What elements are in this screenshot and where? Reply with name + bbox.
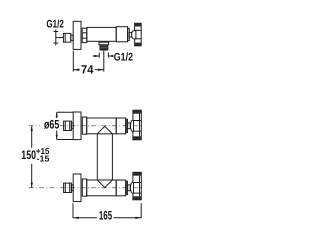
inlet union nut (side view) <box>63 33 70 42</box>
unit1 collar <box>82 117 86 134</box>
outlet G1/2 arrow right <box>109 55 112 57</box>
dim 150 tolerance -15 <box>37 153 50 163</box>
hex collar <box>82 28 87 42</box>
hex facet line lower <box>82 37 87 39</box>
unit2 handle bottom cap <box>133 196 141 200</box>
dim o65 text <box>44 118 59 132</box>
dim o65 vertical line bottom seg <box>56 131 58 140</box>
unit1 centerline (dash-dot) <box>29 125 40 127</box>
svg-text:165: 165 <box>99 208 112 222</box>
nut-to-flange stub <box>71 35 73 40</box>
outlet collar <box>99 42 109 45</box>
dim 165 line right segment <box>114 217 142 219</box>
handle bottom cap fill <box>135 43 142 46</box>
outlet extension tick left <box>98 53 100 58</box>
inlet tick bottom <box>54 42 59 44</box>
unit2 collar <box>82 179 86 196</box>
handle mid line lower <box>135 38 142 40</box>
nut chamfer line <box>64 33 66 42</box>
dim 165 line left segment <box>73 217 97 219</box>
unit2 handle bar <box>133 172 141 200</box>
handle mid line upper <box>135 29 142 31</box>
unit2 nut chamfer right <box>69 183 71 192</box>
dim o65 bottom extension <box>57 139 73 141</box>
dim 150 vertical line upper seg <box>31 126 33 148</box>
label G1/2 inlet text <box>46 18 63 30</box>
unit1 stub <box>71 123 73 129</box>
wall flange / escutcheon (side view) <box>73 21 81 49</box>
unit2 union nut <box>64 183 72 192</box>
unit1 handle hub <box>131 120 134 131</box>
unit1 handle bottom cap <box>133 136 141 140</box>
handle hub <box>132 31 136 39</box>
dim 150 tolerance +15 <box>36 146 50 156</box>
svg-text:ø65: ø65 <box>44 118 59 132</box>
unit1 body <box>87 118 117 134</box>
dim o65 arrow down <box>56 135 58 140</box>
unit1 handle bar <box>133 110 141 140</box>
svg-text:G1/2: G1/2 <box>114 51 133 63</box>
handle bar (side view) <box>135 23 142 46</box>
unit2 wall flange <box>73 174 81 202</box>
outlet centerline extension <box>103 51 105 72</box>
outlet extension tick right <box>107 53 109 58</box>
dim 150 text <box>21 148 36 162</box>
unit2 cartridge housing <box>116 180 125 196</box>
unit1 handle top cap <box>133 110 141 114</box>
thread line 2 <box>100 47 108 49</box>
hex facet line upper <box>82 32 87 34</box>
handle top cap fill <box>135 23 142 26</box>
dim 165 right extension <box>140 203 142 218</box>
unit1 union nut <box>64 121 72 130</box>
unit1 pipe intersection (lambda) <box>97 126 112 134</box>
unit2 end cap <box>126 181 128 195</box>
outlet G1/2 arrow left <box>93 55 99 57</box>
dim 165 text <box>99 208 112 222</box>
dim 150 arrow down <box>31 183 33 188</box>
dim 74 arrow left <box>73 69 79 71</box>
unit1 handle neck <box>128 123 131 129</box>
unit1 wall flange <box>73 112 81 140</box>
dim o65 top extension <box>57 111 73 113</box>
unit1 end cap <box>126 119 128 133</box>
dim 74 arrow right <box>98 69 104 71</box>
unit1 cartridge housing <box>116 118 125 134</box>
unit2 handle hub <box>131 182 134 193</box>
main body (side view) <box>87 27 116 41</box>
svg-text:74: 74 <box>81 62 94 76</box>
unit1 nut chamfer right <box>69 121 71 130</box>
end cap <box>128 28 130 40</box>
thread line 3 <box>100 48 108 50</box>
handle neck <box>129 33 132 38</box>
unit1 handle inner lines <box>133 120 141 122</box>
dim 165 arrow right <box>135 217 141 219</box>
connecting pipe left edge <box>96 134 98 180</box>
connecting pipe right edge <box>111 134 113 180</box>
unit2 body <box>87 180 117 196</box>
dim o65 vertical line top seg <box>56 112 58 118</box>
label G1/2 outlet text <box>114 51 133 63</box>
dim 150 arrow up <box>31 126 33 131</box>
unit2 stub <box>71 185 73 191</box>
unit2 handle inner lines <box>133 182 141 184</box>
svg-text:-15: -15 <box>37 153 50 163</box>
dim 74 text <box>81 62 94 76</box>
svg-text:G1/2: G1/2 <box>46 18 63 30</box>
inlet tick top <box>54 31 59 33</box>
cartridge housing (side view) <box>116 27 127 42</box>
thread line 1 <box>100 45 108 47</box>
unit2 centerline (dash-dot) <box>29 187 141 189</box>
unit2 handle neck <box>128 185 131 191</box>
inlet thread extension line vertical <box>55 30 57 46</box>
dim 74 line right segment <box>95 69 104 71</box>
svg-text:150: 150 <box>21 148 36 162</box>
inlet leader / centerline <box>56 37 64 39</box>
unit1 nut chamfer left <box>64 121 66 130</box>
dim 165 left extension <box>72 203 74 218</box>
unit2 nut chamfer left <box>64 183 66 192</box>
dim 74 left extension line <box>72 51 74 72</box>
unit2 handle top cap <box>133 172 141 176</box>
dim 165 arrow left <box>73 217 79 219</box>
dim 74 line left segment <box>73 69 80 71</box>
dim 150 vertical line lower seg <box>31 164 33 188</box>
outlet threads <box>100 45 108 50</box>
dim o65 arrow up <box>56 112 58 117</box>
unit2 pipe intersection (vee) <box>97 180 112 188</box>
